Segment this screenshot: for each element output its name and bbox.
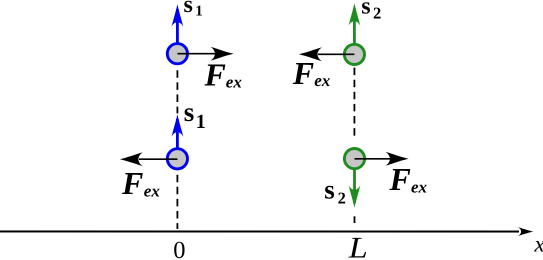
s1 arrow shaft (bottom left, up) — [176, 119, 179, 149]
s2 arrow shaft (top right, up) — [353, 9, 356, 45]
svg-text:s: s — [324, 174, 335, 204]
dashed line at x=L, lower segment — [353, 216, 355, 223]
s2 arrowhead (top right) — [349, 3, 361, 26]
dashed line at x=0, upper segment — [176, 70, 178, 113]
F_ex label (top right) — [292, 55, 331, 91]
particle 4 (bottom right, green) — [344, 149, 364, 169]
s2 arrow shaft (bottom right, down) — [353, 169, 356, 203]
svg-text:L: L — [348, 232, 368, 260]
F_ex arrow shaft (bottom right, right) — [354, 158, 390, 160]
s2 arrowhead (bottom right, down) — [349, 185, 361, 208]
F_ex arrow shaft (top right, left) — [318, 53, 354, 55]
s1 arrowhead (top left) — [172, 4, 184, 27]
F_ex arrow shaft (bottom left, left) — [139, 158, 177, 160]
x axis arrowhead — [517, 227, 534, 237]
svg-text:s: s — [184, 0, 193, 18]
svg-text:1: 1 — [196, 111, 206, 133]
particle 2 (bottom left, blue) — [167, 149, 187, 169]
s1 label (top) — [184, 0, 203, 20]
svg-text:0: 0 — [173, 237, 185, 260]
F_ex label (bottom right) — [388, 161, 427, 197]
svg-text:x: x — [533, 232, 543, 257]
F_ex label (bottom left) — [121, 165, 160, 201]
dashed line at x=0, lower segment — [176, 175, 178, 229]
svg-text:ex: ex — [411, 178, 428, 197]
svg-text:ex: ex — [144, 181, 161, 200]
svg-text:ex: ex — [314, 71, 331, 90]
s1 arrowhead (bottom left) — [171, 114, 183, 137]
s1 arrow shaft (top left, up) — [176, 9, 179, 44]
F_ex arrowhead (top right) — [299, 47, 322, 61]
s1 label (bottom) — [184, 97, 206, 133]
svg-text:s: s — [184, 97, 195, 127]
particle 1 (top left, blue) — [167, 44, 187, 64]
F_ex arrowhead (bottom right) — [385, 152, 408, 166]
svg-text:2: 2 — [338, 189, 346, 208]
F_ex arrowhead (top left) — [210, 47, 233, 61]
svg-text:2: 2 — [373, 4, 381, 23]
svg-text:F: F — [388, 161, 410, 197]
F_ex label (top left) — [204, 56, 243, 92]
x axis line — [0, 230, 519, 232]
svg-text:F: F — [204, 56, 226, 92]
svg-text:F: F — [292, 55, 314, 91]
svg-text:1: 1 — [195, 4, 203, 20]
s2 label (top) — [361, 0, 381, 23]
svg-text:ex: ex — [226, 73, 243, 92]
dashed line at x=L, upper segment — [353, 68, 355, 136]
F_ex arrowhead (bottom left) — [120, 152, 143, 166]
particle 3 (top right, green) — [344, 44, 364, 64]
F_ex arrow shaft (top left, right) — [177, 53, 215, 55]
svg-text:s: s — [361, 0, 370, 19]
svg-text:F: F — [121, 165, 143, 201]
s2 label (bottom) — [324, 174, 346, 207]
